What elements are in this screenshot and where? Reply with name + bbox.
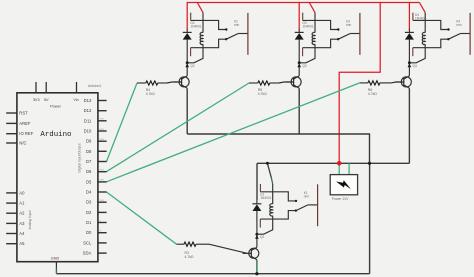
pin SDA xyxy=(83,251,107,256)
svg-text:SCL: SCL xyxy=(83,240,92,245)
relay K2 xyxy=(187,13,248,63)
resistor R6 4.7k xyxy=(360,81,404,96)
transistor Q4 NPN xyxy=(395,63,417,89)
svg-text:PWM: PWM xyxy=(98,180,104,182)
pin D8 xyxy=(86,149,107,154)
svg-text:1N4001: 1N4001 xyxy=(191,25,202,29)
relay K1 xyxy=(257,184,318,234)
pin N/C xyxy=(6,141,26,146)
wire GND green stub xyxy=(55,269,57,274)
pin D1 xyxy=(86,220,107,225)
junction node at D4/Q4 xyxy=(408,61,411,64)
wire green power + lead xyxy=(338,163,340,174)
pin GND xyxy=(51,256,60,268)
svg-text:D1: D1 xyxy=(86,220,92,225)
svg-text:1N4001: 1N4001 xyxy=(260,196,271,200)
wire +12V top rail xyxy=(187,2,419,4)
pin RST xyxy=(6,111,28,116)
svg-text:A3: A3 xyxy=(19,221,25,226)
svg-text:Vin: Vin xyxy=(73,98,78,102)
svg-text:4.7kΩ: 4.7kΩ xyxy=(146,92,155,96)
svg-text:4.7kΩ: 4.7kΩ xyxy=(258,92,267,96)
svg-text:nnn: nnn xyxy=(456,23,462,27)
wire D4 to R3 xyxy=(107,192,177,244)
svg-text:GND: GND xyxy=(51,256,60,260)
transistor Q2 NPN xyxy=(173,63,195,89)
wire Q4 emitter down xyxy=(408,88,410,163)
wire red diagonal to K3 coil xyxy=(309,3,315,13)
wire green power - lead xyxy=(348,163,350,174)
pin D10 xyxy=(84,129,107,134)
svg-text:PWM: PWM xyxy=(98,139,104,141)
pin AREF xyxy=(6,121,31,126)
svg-text:N/C: N/C xyxy=(19,141,26,146)
transistor Q3 NPN xyxy=(285,63,307,89)
pin D5 xyxy=(86,179,107,184)
pin 5V xyxy=(44,82,49,102)
svg-text:nnn: nnn xyxy=(234,23,240,27)
svg-text:Q2: Q2 xyxy=(190,64,194,68)
pin A1 xyxy=(6,201,25,206)
diode D3 1N4001 xyxy=(295,21,314,63)
transistor Q1 NPN xyxy=(243,234,265,260)
pin A5 xyxy=(6,241,25,246)
svg-text:D6: D6 xyxy=(86,169,92,174)
svg-text:Digital Input/Output: Digital Input/Output xyxy=(78,143,82,172)
svg-text:SDA: SDA xyxy=(83,251,92,256)
wire emitter bus xyxy=(187,134,369,163)
pin D12 xyxy=(84,108,107,113)
svg-text:5V: 5V xyxy=(44,98,49,102)
wire D5 to R6 xyxy=(107,83,360,182)
wire 12V- bus xyxy=(257,162,409,164)
svg-text:AREF: AREF xyxy=(19,121,31,126)
wire bus drop to K1 diode xyxy=(256,163,258,200)
wire red elbow to power supply xyxy=(339,2,380,163)
relay K3 xyxy=(299,13,360,63)
svg-text:Q1: Q1 xyxy=(260,235,264,239)
pin D7 xyxy=(86,159,107,164)
wire red drop to K4 diode xyxy=(408,2,410,29)
pin D13 xyxy=(84,98,107,103)
relay K4 xyxy=(409,13,470,63)
svg-text:Analog Input: Analog Input xyxy=(28,210,32,229)
wire Q3 emitter down xyxy=(298,88,300,134)
resistor R5 4.7k xyxy=(249,81,293,96)
svg-text:PWM: PWM xyxy=(98,170,104,172)
wire bottom ground bus xyxy=(56,273,369,275)
svg-text:A2: A2 xyxy=(19,211,25,216)
wire Q2 emitter down xyxy=(186,88,188,134)
svg-text:3V3: 3V3 xyxy=(33,98,40,102)
svg-text:PWM: PWM xyxy=(98,129,104,131)
junction node at D3/Q3 xyxy=(298,61,301,64)
svg-text:RST: RST xyxy=(19,111,28,116)
wire red diagonal to K4 coil xyxy=(420,3,426,13)
svg-text:Q4: Q4 xyxy=(413,64,417,68)
svg-text:D13: D13 xyxy=(84,98,92,103)
power supply 12V block xyxy=(330,175,357,202)
pin IO REF xyxy=(6,131,34,136)
svg-text:4.7kΩ: 4.7kΩ xyxy=(368,92,377,96)
junction node +12V red dot xyxy=(337,161,342,166)
diode D2 1N4001 xyxy=(183,21,202,63)
junction node at D1/Q1 xyxy=(255,233,258,236)
svg-text:D2: D2 xyxy=(86,210,92,215)
junction node bus-ground drop xyxy=(368,162,371,165)
svg-text:D5: D5 xyxy=(86,179,92,184)
svg-text:Arduino: Arduino xyxy=(40,131,71,139)
svg-text:D3: D3 xyxy=(86,200,92,205)
svg-text:D10: D10 xyxy=(84,129,92,134)
svg-text:nnn: nnn xyxy=(304,195,310,199)
svg-text:A5: A5 xyxy=(19,241,25,246)
wire red drop to K2 diode xyxy=(186,2,188,29)
svg-text:A0: A0 xyxy=(19,190,25,195)
svg-text:Power 12V: Power 12V xyxy=(332,197,349,201)
wire D7 to R4 xyxy=(107,83,138,162)
wire bus slant to K1 coil xyxy=(267,163,271,178)
wire red diagonal to K2 coil xyxy=(197,3,203,13)
svg-text:Power: Power xyxy=(50,104,61,108)
wire Q1 emitter green xyxy=(256,260,258,274)
pin D4 xyxy=(86,190,107,195)
svg-text:D0: D0 xyxy=(86,230,92,235)
junction node bus-K1 coil xyxy=(266,162,269,165)
diode D1 1N4001 xyxy=(252,193,271,235)
svg-text:A4: A4 xyxy=(19,231,25,236)
pin A3 xyxy=(6,221,25,226)
svg-text:A1: A1 xyxy=(19,201,25,206)
svg-text:IO REF: IO REF xyxy=(19,131,33,136)
svg-text:D7: D7 xyxy=(86,159,92,164)
diode D4 1N4001 xyxy=(405,13,426,63)
pin D0 xyxy=(86,230,107,235)
svg-text:Arduino1: Arduino1 xyxy=(88,84,102,88)
Arduino board Arduino1 xyxy=(17,93,98,262)
pin D11 xyxy=(84,118,107,123)
pin Vin xyxy=(73,82,78,102)
resistor R4 4.7k xyxy=(137,81,181,96)
svg-text:4.7kΩ: 4.7kΩ xyxy=(185,255,194,259)
svg-text:D4: D4 xyxy=(86,190,92,195)
svg-text:PWM: PWM xyxy=(98,200,104,202)
pin D9 xyxy=(86,139,107,144)
pin D3 xyxy=(86,200,107,205)
svg-text:RX: RX xyxy=(98,231,102,233)
svg-text:1N4001: 1N4001 xyxy=(303,25,314,29)
wire red drop to K3 diode xyxy=(298,2,300,29)
junction node at D2/Q2 xyxy=(186,61,189,64)
svg-text:PWM: PWM xyxy=(98,119,104,121)
pin SCL xyxy=(83,240,106,245)
svg-text:D12: D12 xyxy=(84,108,92,113)
svg-text:Q3: Q3 xyxy=(302,64,306,68)
resistor R3 4.7k xyxy=(177,242,252,259)
svg-text:D8: D8 xyxy=(86,149,92,154)
pin A4 xyxy=(6,231,25,236)
svg-text:D9: D9 xyxy=(86,139,92,144)
wire D6 to R5 xyxy=(107,83,250,172)
pin 3V3 xyxy=(33,82,40,102)
wire ground drop to bottom bus xyxy=(369,163,371,273)
pin A2 xyxy=(6,211,25,216)
svg-text:D11: D11 xyxy=(84,118,92,123)
pin D6 xyxy=(86,169,107,174)
pin A0 xyxy=(6,190,25,195)
junction node Q1 emitter / ground bus xyxy=(255,272,258,275)
svg-text:nnn: nnn xyxy=(346,23,352,27)
pin D2 xyxy=(86,210,107,215)
